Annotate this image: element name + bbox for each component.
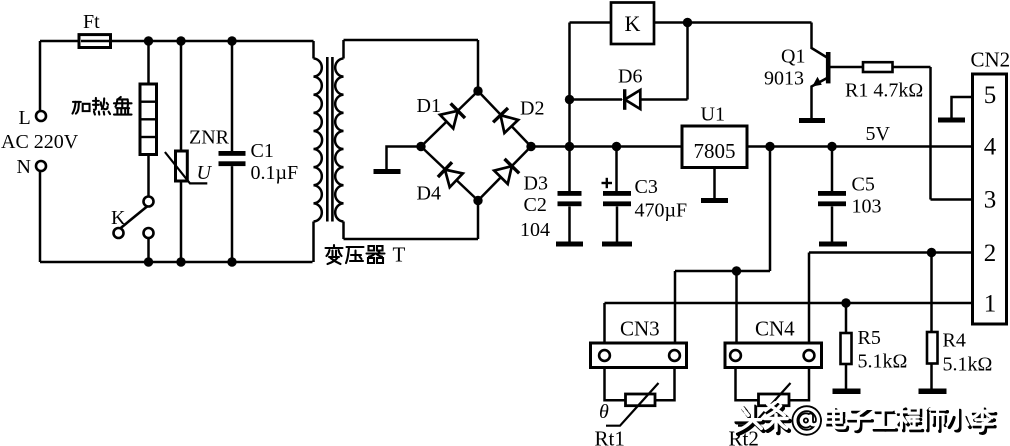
ground bridge left <box>374 169 401 174</box>
transistor Q1 emitter arrow <box>812 77 822 87</box>
ground Q1 emitter <box>799 118 825 123</box>
wire ZNR bottom <box>180 181 183 262</box>
wire bridge edge D3 <box>478 147 531 201</box>
capacitor C2 <box>558 191 582 206</box>
ground C2 <box>556 242 583 247</box>
junction CN4 feed <box>732 266 741 275</box>
wire secondary top to bridge <box>344 39 479 42</box>
ground R4 <box>919 389 947 395</box>
wire C1 top <box>231 41 234 151</box>
watermark 李 <box>971 407 995 434</box>
junction bottom rail C1 <box>227 257 236 266</box>
heater element 加热盘 body <box>140 84 157 155</box>
resistor R1 body <box>863 62 893 72</box>
wire through fuse Ft <box>81 40 109 43</box>
diode D2 <box>493 108 518 133</box>
wire CN2 pin2 line <box>809 251 973 254</box>
wire CN4 right pin up <box>808 253 811 344</box>
watermark 条 <box>763 403 789 433</box>
diode D4 <box>438 162 463 187</box>
wire bridge left vertex to ground <box>387 147 422 170</box>
watermark 小 <box>947 408 970 431</box>
wire transformer secondary bottom stem <box>342 222 345 240</box>
wire CN3 left pin up <box>603 303 606 343</box>
wire C5 top <box>831 147 834 192</box>
svg-text:K: K <box>625 11 641 36</box>
ground C5 <box>819 242 847 247</box>
wire Q1 emitter <box>812 78 829 119</box>
ground U1 <box>701 198 728 203</box>
wire R4 top <box>930 253 933 333</box>
watermark 师 <box>924 407 947 432</box>
wire CN2 pin5 to ground <box>952 97 973 118</box>
capacitor C3 plus sign <box>602 178 613 188</box>
wire L terminal drop <box>39 41 42 111</box>
svg-text:D6: D6 <box>618 66 642 88</box>
label 器 (transformer) <box>367 246 385 263</box>
wire R4 bottom <box>930 364 933 389</box>
wire feed to CN3 right pin <box>674 271 677 343</box>
watermark 程 <box>896 407 922 431</box>
watermark 头 <box>734 404 763 433</box>
wire transformer primary top stem <box>312 41 315 59</box>
wire C3 bottom <box>616 206 619 241</box>
wire top rail to transformer <box>111 40 314 43</box>
capacitor C5 <box>818 191 846 206</box>
wire Rt2 to CN4 right pin <box>789 368 809 401</box>
svg-text:4: 4 <box>984 134 997 161</box>
thermistor Rt2 diagonal <box>738 383 791 426</box>
transformer core line left <box>326 57 329 222</box>
wire top rail left <box>40 40 79 43</box>
diode D1 <box>440 103 465 128</box>
transistor Q1 base bar <box>826 52 831 83</box>
junction bridge top vertex <box>473 86 482 95</box>
wire Q1 collector <box>812 23 828 58</box>
svg-text:C5: C5 <box>852 174 875 196</box>
fuse Ft body <box>79 35 111 48</box>
label 压 (transformer) <box>346 247 364 263</box>
svg-text:C2: C2 <box>524 194 547 216</box>
junction bridge bottom vertex <box>473 196 482 205</box>
wire C1 bottom <box>231 166 234 262</box>
svg-text:D2: D2 <box>520 98 544 120</box>
wire R5 bottom <box>845 364 848 389</box>
svg-text:θ: θ <box>599 401 609 423</box>
svg-text:103: 103 <box>852 196 882 218</box>
capacitor C3 <box>603 191 631 206</box>
wire transformer primary bottom stem <box>312 222 315 263</box>
wire heater top <box>147 41 150 84</box>
wire Rt1 to CN3 right pin <box>655 368 675 401</box>
wire 5V branch down <box>769 147 772 272</box>
svg-text:U1: U1 <box>701 104 725 126</box>
wire switch K to bottom rail <box>147 238 150 262</box>
junction bottom rail heater <box>144 257 153 266</box>
svg-text:3: 3 <box>984 187 997 214</box>
wire 5V to CN3-CN4 feed <box>675 270 770 273</box>
svg-text:CN2: CN2 <box>971 48 1010 72</box>
ground C3 <box>602 242 632 247</box>
junction relay output node <box>683 18 692 27</box>
wire relay left lead <box>570 21 612 24</box>
diode D6 <box>625 89 641 110</box>
junction rail 5V branch <box>765 142 774 151</box>
svg-text:104: 104 <box>520 219 550 241</box>
capacitor C1 <box>219 151 246 166</box>
junction rail C3 branch <box>612 142 621 151</box>
label 热 (heating) <box>93 98 110 115</box>
svg-text:1: 1 <box>984 291 997 318</box>
wire D6 left lead <box>570 98 623 101</box>
svg-text:Ft: Ft <box>83 11 100 33</box>
svg-text:D1: D1 <box>417 95 441 117</box>
svg-text:D4: D4 <box>417 183 441 205</box>
connector CN4 body <box>725 343 822 368</box>
wire DC rail U1 to CN2 <box>747 145 973 148</box>
CN3 left pin circle <box>599 350 610 361</box>
heater element segment line 2 <box>141 118 156 120</box>
thermistor Rt2 body <box>759 394 790 406</box>
wire CN3 left pin to Rt1 <box>605 368 626 401</box>
wire pin3 branch to CN2 <box>931 198 973 201</box>
wire C2 bottom <box>568 206 571 241</box>
svg-text:R4: R4 <box>943 330 966 352</box>
svg-text:Rt1: Rt1 <box>595 427 625 446</box>
watermark @ <box>795 409 819 433</box>
wire pin3 branch down <box>929 67 932 200</box>
wire R5 top <box>845 303 848 333</box>
wire CN4 left pin to Rt2 <box>736 368 759 401</box>
junction top rail C1 <box>227 36 236 45</box>
svg-text:5: 5 <box>984 82 997 109</box>
svg-text:U: U <box>197 162 213 184</box>
heater element segment line 3 <box>141 136 156 138</box>
junction R4 tap <box>927 248 936 257</box>
connector CN3 body <box>591 343 687 368</box>
connector CN2 body <box>973 74 1007 324</box>
wire DC rail bridge to U1 <box>531 145 682 148</box>
wire CN2 pin1 line <box>605 302 973 305</box>
svg-text:5.1kΩ: 5.1kΩ <box>943 354 993 376</box>
wire U1 ground pin <box>713 168 716 199</box>
label 盘 (plate) <box>114 97 132 115</box>
svg-text:5.1kΩ: 5.1kΩ <box>858 351 908 373</box>
svg-text:T: T <box>393 243 406 267</box>
diode D3 <box>494 159 519 184</box>
transformer T primary winding <box>314 59 323 222</box>
watermark 工 <box>872 410 896 430</box>
svg-text:R1 4.7kΩ: R1 4.7kΩ <box>845 80 923 102</box>
switch K blade <box>114 207 147 234</box>
wire bridge bottom vertex rise <box>477 201 480 240</box>
resistor R4 body <box>927 332 938 364</box>
svg-text:7805: 7805 <box>694 139 736 163</box>
terminal L circle <box>36 111 46 121</box>
thermistor Rt1 body <box>626 394 656 406</box>
wire C2 top <box>568 147 571 192</box>
junction bottom rail ZNR <box>176 257 185 266</box>
watermark 子 <box>847 409 873 431</box>
varistor ZNR body <box>176 151 188 181</box>
switch K top contact <box>144 197 154 207</box>
svg-text:C1: C1 <box>251 140 274 162</box>
wire bridge edge D2 <box>478 91 531 147</box>
wire D6 to relay output <box>686 23 689 100</box>
transformer core line right <box>331 57 334 222</box>
wire ZNR top <box>180 41 183 151</box>
svg-text:CN4: CN4 <box>755 317 795 341</box>
thermistor Rt1 diagonal <box>606 383 659 426</box>
wire relay branch up <box>568 23 571 147</box>
terminal N circle <box>36 161 46 171</box>
svg-text:470µF: 470µF <box>635 200 688 222</box>
wire relay right lead <box>654 21 812 24</box>
svg-text:N: N <box>17 156 31 178</box>
junction top rail ZNR <box>176 36 185 45</box>
label 加 (heating) <box>72 102 89 114</box>
wire Q1 base to R1 <box>830 66 863 69</box>
wire D6 right lead <box>641 98 688 101</box>
wire bridge top vertex drop <box>477 40 480 91</box>
svg-text:0.1µF: 0.1µF <box>251 162 299 184</box>
label 变 (transformer) <box>326 245 343 264</box>
wire transformer secondary top stem <box>342 40 345 59</box>
transformer T secondary winding <box>335 59 344 222</box>
switch K left contact <box>114 228 124 238</box>
wire bridge edge D4 <box>421 147 478 201</box>
CN4 right pin circle <box>804 350 815 361</box>
resistor R5 body <box>841 333 852 364</box>
svg-text:R5: R5 <box>858 327 881 349</box>
wire C3 top <box>615 147 618 192</box>
varistor ZNR diagonal <box>165 152 207 183</box>
wire bottom rail <box>40 261 313 264</box>
ground R5 <box>833 389 861 395</box>
wire N terminal drop <box>39 171 42 262</box>
svg-text:2: 2 <box>984 240 997 267</box>
CN3 right pin circle <box>669 350 680 361</box>
junction bridge left vertex <box>416 142 425 151</box>
wire C5 bottom <box>831 206 834 241</box>
svg-text:AC 220V: AC 220V <box>1 131 79 153</box>
wire bridge edge D1 <box>421 91 478 147</box>
junction D6 anode node <box>565 95 574 104</box>
svg-text:ZNR: ZNR <box>189 127 230 149</box>
wire heater to switch K <box>147 155 150 197</box>
svg-text:C3: C3 <box>635 176 658 198</box>
svg-text:CN3: CN3 <box>620 317 660 341</box>
junction top rail heater <box>144 36 153 45</box>
switch K right contact <box>144 228 154 238</box>
svg-text:K: K <box>111 207 126 229</box>
CN4 left pin circle <box>730 350 741 361</box>
wire secondary bottom to bridge <box>344 238 479 241</box>
junction rail relay branch <box>565 142 574 151</box>
wire feed to CN4 left pin <box>735 271 738 343</box>
ground CN2 pin5 <box>938 118 965 123</box>
svg-text:D3: D3 <box>524 173 548 195</box>
svg-text:9013: 9013 <box>764 68 804 90</box>
svg-text:5V: 5V <box>866 123 891 145</box>
svg-text:L: L <box>19 107 31 129</box>
watermark 电 <box>826 407 848 430</box>
heater element segment line 1 <box>141 100 156 102</box>
svg-text:Q1: Q1 <box>781 46 805 68</box>
junction rail C5 branch <box>827 142 836 151</box>
relay K body <box>611 3 654 45</box>
regulator U1 7805 body <box>682 126 747 168</box>
junction bridge right vertex <box>526 142 535 151</box>
wire R1 to pin3 branch <box>893 66 931 69</box>
junction R5 tap <box>841 298 850 307</box>
